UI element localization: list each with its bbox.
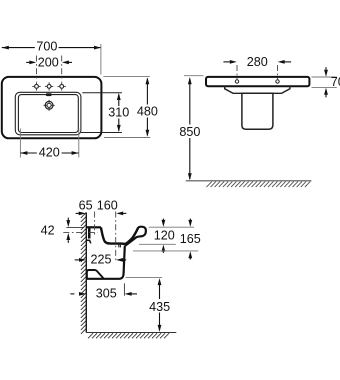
dimension 850 (height from floor): [184, 75, 204, 77]
dimension 480 (overall depth): [103, 76, 149, 78]
section: foot wedge at bottom left: [87, 270, 104, 279]
dimension 280 (hole spacing front): [223, 61, 230, 63]
svg-text:305: 305: [96, 287, 117, 301]
svg-text:120: 120: [154, 228, 175, 242]
front view: slab (basin top): [206, 77, 309, 86]
svg-text:435: 435: [149, 300, 170, 314]
dimension 225 (wall to drain axis): [75, 259, 79, 261]
section: basin rim/deck top: [86, 226, 101, 228]
section: trap cover front and bottom: [86, 246, 125, 279]
plan view: basin outer rim outline: [2, 77, 102, 138]
svg-text:700: 700: [36, 40, 57, 54]
dimension 65 (wall to faucet): [76, 212, 79, 214]
plan view: drain with crosshair: [44, 100, 55, 111]
dimension 420 (bowl width): [19, 129, 21, 158]
centerline right faucet hole: [61, 56, 63, 82]
dimension 165: [133, 250, 198, 252]
plan view: three faucet holes: [35, 85, 39, 89]
dimension 700 (overall width): [2, 47, 35, 49]
svg-text:420: 420: [39, 145, 60, 159]
section: floor hatching: [88, 333, 169, 338]
centerline faucet axis (section): [94, 212, 96, 237]
centerlines of mounting holes: [236, 65, 238, 80]
dimension 310 (bowl depth): [82, 92, 122, 94]
dimension 120 (rim to bowl underside): [149, 226, 194, 228]
centerline left faucet hole: [36, 56, 38, 82]
section: drain stub lines: [118, 245, 120, 248]
front view: semi-pedestal: [242, 93, 273, 129]
svg-text:310: 310: [108, 106, 129, 120]
svg-text:280: 280: [247, 55, 268, 69]
section: deck underside at wall: [86, 240, 91, 243]
dimension 70 (slab thickness): [312, 76, 337, 78]
svg-text:165: 165: [180, 232, 201, 246]
front view: mounting holes: [235, 80, 238, 83]
section: front rim bulge and underside: [125, 227, 146, 246]
svg-text:225: 225: [90, 253, 111, 267]
front view: floor hatching: [207, 182, 311, 187]
section: bowl interior profile: [101, 227, 138, 243]
plan view: bowl bottom edge: [18, 95, 78, 133]
svg-text:480: 480: [137, 104, 158, 118]
plan view: overflow slot: [46, 93, 52, 96]
svg-text:70: 70: [331, 75, 340, 89]
centerline faucet horizontal axis: [63, 232, 98, 234]
dimension 42 (rim to faucet axis): [66, 226, 84, 228]
svg-text:160: 160: [97, 198, 118, 212]
centerline drain axis (section): [115, 212, 117, 263]
dimension 200 (hole spacing): [26, 61, 30, 63]
dimension 435 (trap bottom to floor): [126, 276, 162, 278]
section: wall hatching: [81, 213, 86, 334]
dimension 305 (wall to trap front): [123, 283, 125, 295]
svg-text:65: 65: [79, 198, 93, 212]
svg-text:850: 850: [179, 125, 200, 139]
section: faucet hole (filled slot): [88, 228, 91, 238]
section: floor line: [86, 332, 176, 334]
front view: under-bowl band: [225, 86, 242, 93]
section: wall face line: [85, 213, 87, 333]
svg-text:200: 200: [38, 55, 59, 69]
dimension 160 (faucet to drain): [116, 212, 123, 216]
front view: floor line: [186, 180, 312, 182]
plan view: inner rim edge: [15, 92, 81, 135]
svg-text:42: 42: [41, 224, 55, 238]
